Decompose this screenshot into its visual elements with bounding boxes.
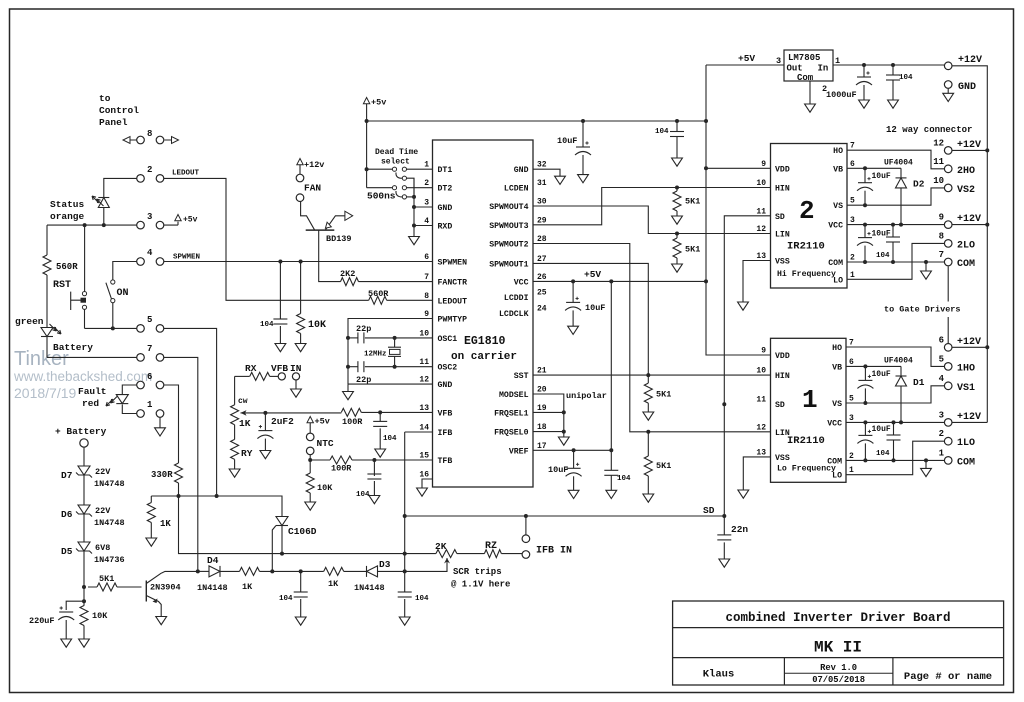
svg-text:3: 3 (776, 56, 781, 66)
svg-text:IFB: IFB (438, 429, 453, 438)
svg-text:SD: SD (775, 213, 785, 222)
svg-text:19: 19 (537, 404, 547, 413)
svg-text:+12V: +12V (957, 337, 981, 348)
+5v arrow (logic rail) (363, 98, 369, 104)
svg-text:FRQSEL1: FRQSEL1 (494, 409, 528, 418)
wire +5v rail to LM7805 out (367, 120, 706, 122)
svg-text:30: 30 (537, 198, 547, 207)
svg-text:104: 104 (383, 435, 397, 443)
svg-text:104: 104 (279, 595, 293, 603)
svg-text:10: 10 (419, 329, 429, 338)
resistor 5K1 pulldown HIN2 (676, 188, 678, 192)
svg-text:16: 16 (419, 471, 429, 480)
svg-text:COM: COM (827, 458, 842, 467)
svg-text:LIN: LIN (775, 231, 790, 240)
svg-text:+12V: +12V (957, 412, 981, 423)
junction 104 vcc1 (892, 420, 896, 424)
junction +5v rail (365, 119, 369, 123)
ground pin16 (417, 488, 428, 496)
svg-text:2018/7/19: 2018/7/19 (14, 385, 76, 401)
wire D5 to base node (83, 551, 85, 601)
junction 330R bottom (177, 494, 181, 498)
svg-text:+12v: +12v (304, 160, 324, 170)
connector circle 10 VS2 (944, 184, 952, 192)
wire PWMTYP to gnd chain (348, 319, 433, 385)
diode D3 1N4148 (367, 566, 378, 577)
connector circle 2 1LO (944, 437, 952, 445)
svg-text:LO: LO (832, 472, 842, 481)
svg-text:+5v: +5v (183, 216, 198, 225)
svg-text:HIN: HIN (775, 185, 790, 194)
ground 5K1 LIN1 (643, 494, 654, 502)
capacitor 10uF (VCC) (572, 281, 574, 302)
junction 10uF rail (581, 119, 585, 123)
svg-text:10uF: 10uF (585, 303, 605, 313)
svg-text:10: 10 (756, 367, 766, 376)
svg-text:ON: ON (117, 288, 129, 299)
connector circle 1 COM (944, 457, 952, 465)
junction 104 VFB (378, 410, 382, 414)
svg-text:PWMTYP: PWMTYP (438, 316, 468, 325)
ground 10uF rail (578, 175, 589, 183)
svg-text:2K: 2K (435, 541, 447, 552)
wire SD row (405, 515, 725, 517)
wire VDD1 (706, 281, 771, 355)
svg-text:COM: COM (957, 259, 975, 270)
wire COM1 row (846, 459, 944, 461)
resistor 10K (base) (83, 601, 85, 639)
svg-text:26: 26 (537, 273, 547, 282)
svg-text:2: 2 (939, 429, 944, 439)
svg-text:6: 6 (939, 335, 944, 345)
wire 330R junction to 2K row (179, 496, 405, 554)
capacitor 104 (VCC2) (892, 225, 894, 262)
svg-text:1: 1 (849, 466, 854, 475)
svg-text:4: 4 (939, 374, 945, 384)
svg-text:MODSEL: MODSEL (499, 391, 529, 400)
jumper DT1 (367, 168, 393, 170)
ground emitter 2N3904 (156, 617, 167, 625)
ground 220uF (61, 639, 72, 647)
wire pin5 right down to SCR net (164, 328, 217, 496)
svg-text:12: 12 (756, 423, 766, 432)
wire SPWMOUT4 to LIN2 (533, 206, 771, 234)
junction 104 rail (675, 119, 679, 123)
connector IFB IN upper circle (522, 535, 530, 543)
resistor 10K (SPWMEN) (300, 262, 302, 344)
junction gnd com1 (924, 458, 928, 462)
resistor RY (234, 425, 236, 440)
zener D6 22V 1N4748 (78, 505, 90, 514)
ground pin32 (555, 176, 566, 184)
wire RST/ON to pin5 (85, 327, 137, 329)
svg-text:RZ: RZ (485, 541, 497, 552)
wire TFB row (310, 459, 330, 461)
connector pin 3 pair (137, 221, 145, 229)
junction base divider (82, 585, 86, 589)
svg-text:VCC: VCC (514, 278, 529, 287)
svg-text:OSC1: OSC1 (438, 335, 458, 344)
svg-text:VS: VS (832, 400, 842, 409)
svg-text:SD: SD (775, 401, 785, 410)
junction osc vertical top (346, 336, 350, 340)
wire SPWMOUT2 to LIN1 (533, 244, 771, 432)
connector circle 8 2LO (944, 240, 952, 248)
svg-text:VS2: VS2 (957, 185, 975, 196)
capacitor 1000uF (863, 65, 865, 77)
svg-text:Fault: Fault (78, 386, 107, 397)
wire to IFB IN circle (525, 516, 527, 535)
zener D5 6V8 1N4736 (78, 542, 90, 551)
wire battery to D7 (83, 447, 85, 466)
svg-text:6: 6 (147, 372, 152, 382)
diode D4 1N4148 (209, 566, 220, 577)
svg-text:Out: Out (787, 64, 803, 74)
svg-text:07/05/2018: 07/05/2018 (812, 675, 865, 685)
svg-text:12: 12 (419, 376, 429, 385)
wire VSS2 to ground (743, 261, 771, 303)
wire SPWMOUT3 to HIN2 (533, 188, 771, 225)
ground 104 rail (672, 158, 683, 166)
svg-text:6: 6 (849, 358, 854, 367)
svg-text:1: 1 (802, 385, 818, 415)
capacitor 22p lower (357, 361, 359, 372)
capacitor 10uF (logic rail) (582, 121, 584, 147)
svg-text:1N4748: 1N4748 (94, 479, 125, 489)
junction 10uF vcc2 (863, 223, 867, 227)
wire SCR gate (272, 526, 276, 572)
svg-text:Com: Com (797, 73, 814, 83)
wire VDD2 (706, 167, 771, 169)
capacitor 104 (gate row right) (404, 571, 406, 617)
svg-text:VREF: VREF (509, 447, 529, 456)
svg-text:2: 2 (147, 165, 152, 175)
ground VSS2 (738, 302, 749, 310)
ground oscillator (343, 392, 354, 400)
svg-text:104: 104 (655, 128, 669, 136)
svg-text:C106D: C106D (288, 526, 317, 537)
svg-text:Panel: Panel (99, 117, 128, 128)
capacitor 22p upper (357, 332, 359, 343)
svg-text:22V: 22V (95, 467, 111, 477)
wire SPWMEN row (164, 261, 433, 263)
junction 104 com1 (892, 458, 896, 462)
wire 1K to D3 (344, 570, 367, 572)
ground GND pin (947, 88, 949, 93)
junction 10uF VS2 (863, 203, 867, 207)
svg-text:combined Inverter Driver Board: combined Inverter Driver Board (725, 611, 950, 625)
svg-text:13: 13 (419, 404, 429, 413)
svg-text:cw: cw (238, 397, 248, 406)
zener D7 22V 1N4748 (78, 466, 90, 475)
junction SCR gate on row (270, 569, 274, 573)
wire FAN to BD139 collector (301, 202, 315, 230)
ground 104 12V (888, 100, 899, 108)
wire OSC1 row (365, 337, 433, 339)
svg-text:104: 104 (899, 74, 913, 82)
svg-text:21: 21 (537, 367, 547, 376)
svg-text:VFB: VFB (271, 363, 288, 374)
svg-text:D7: D7 (61, 470, 73, 481)
svg-text:12 way connector: 12 way connector (886, 125, 972, 135)
svg-text:1: 1 (850, 271, 855, 280)
svg-text:www.thebackshed.com: www.thebackshed.com (13, 369, 152, 384)
svg-text:SCR trips: SCR trips (453, 567, 502, 577)
junction 10uF boot1 (863, 364, 867, 368)
capacitor 220uF (66, 601, 84, 610)
capacitor 104 (TFB) (373, 460, 375, 497)
wire NTC to TFB row (309, 455, 311, 473)
svg-text:500ns: 500ns (367, 191, 396, 202)
svg-text:560R: 560R (56, 262, 78, 272)
resistor 1K before D3 (324, 567, 344, 575)
svg-text:10K: 10K (92, 611, 108, 621)
svg-text:SPWMEN: SPWMEN (173, 254, 200, 262)
+5v arrow NTC (307, 417, 313, 423)
svg-text:3: 3 (939, 410, 944, 420)
wire RX to pot top (234, 376, 236, 404)
ground 104 VREF (606, 490, 617, 498)
svg-text:+5V: +5V (584, 269, 601, 280)
svg-text:2: 2 (849, 452, 854, 461)
junction 5K1 HIN2 (675, 186, 679, 190)
junction 104 TFB (372, 458, 376, 462)
svg-text:COM: COM (828, 259, 843, 268)
resistor 5K1 pulldown HIN1 (647, 375, 649, 383)
ground 5K1 HIN1 (643, 412, 654, 420)
svg-text:1: 1 (147, 400, 153, 410)
svg-text:LEDOUT: LEDOUT (438, 297, 468, 306)
junction VDD2 feed (704, 166, 708, 170)
svg-text:13: 13 (756, 252, 766, 261)
svg-text:RST: RST (53, 280, 71, 291)
svg-text:17: 17 (537, 442, 547, 451)
capacitor 104 (VFB) (379, 412, 381, 449)
jumper shunt arc 2 (500ns) (396, 191, 402, 197)
wire SCR cathode (281, 526, 283, 554)
junction pin5 drop at SCR net (215, 494, 219, 498)
ground 5K1 HIN2 (672, 216, 683, 224)
junction dead-time common (412, 195, 416, 199)
IC U4 IR2110 1 body (771, 338, 847, 482)
svg-text:25: 25 (537, 289, 547, 298)
svg-text:10: 10 (933, 176, 944, 186)
svg-text:SPWMEN: SPWMEN (438, 259, 468, 268)
wire VCC1 row (846, 421, 944, 423)
ground 104 TFB (369, 496, 380, 504)
ground dead-time (409, 237, 420, 245)
svg-text:VSS: VSS (775, 454, 790, 463)
svg-text:Klaus: Klaus (703, 669, 735, 681)
capacitor 10uF bootstrap 2 (864, 168, 866, 182)
connector pin 2 pair (137, 175, 145, 183)
svg-text:9: 9 (939, 213, 944, 223)
svg-text:GND: GND (438, 204, 453, 213)
wire SPWMOUT1 to HIN1/SST (533, 263, 648, 375)
svg-text:+5v: +5v (371, 98, 386, 108)
capacitor 104 (VCC1) (893, 422, 895, 460)
svg-text:27: 27 (537, 255, 547, 264)
junction SD1 tap (722, 402, 726, 406)
svg-text:VCC: VCC (828, 222, 843, 231)
junction D1 VCC1 (899, 420, 903, 424)
svg-text:8: 8 (939, 231, 944, 241)
wire connector continuation (947, 266, 949, 343)
svg-text:1K: 1K (328, 579, 339, 589)
svg-text:24: 24 (537, 305, 547, 314)
junction 104 vcc2 (891, 223, 895, 227)
svg-text:Status: Status (50, 199, 85, 210)
connector +12V input (944, 62, 952, 70)
junction 104 com2 (891, 260, 895, 264)
junction bus pin6 (985, 345, 989, 349)
resistor RZ (457, 553, 485, 555)
junction crystal OSC2 (393, 365, 397, 369)
connector FAN pin 2 (296, 194, 304, 202)
svg-text:HO: HO (832, 344, 842, 353)
junction 2uF2 (263, 411, 267, 415)
junction 10uF vcc1 (863, 420, 867, 424)
svg-text:7: 7 (939, 250, 944, 260)
svg-text:SPWMOUT4: SPWMOUT4 (489, 203, 528, 212)
junction 1000uF (862, 63, 866, 67)
svg-text:7: 7 (849, 339, 854, 348)
svg-text:2N3904: 2N3904 (150, 583, 181, 593)
svg-text:1: 1 (424, 161, 429, 170)
svg-text:SPWMOUT2: SPWMOUT2 (489, 241, 528, 250)
svg-text:10uF: 10uF (548, 465, 568, 475)
IC U3 IR2110 2 body (771, 144, 848, 289)
svg-text:LM7805: LM7805 (788, 53, 820, 63)
connector circle 12 +12V (944, 147, 952, 155)
svg-text:GND: GND (958, 82, 976, 93)
ground 104 gate row right (399, 617, 410, 625)
svg-text:10uF: 10uF (872, 172, 891, 181)
junction IFB at SD row (403, 514, 407, 518)
wire D6-D5 (83, 514, 85, 542)
svg-text:DT1: DT1 (438, 166, 453, 175)
pot 2K (405, 553, 436, 555)
svg-text:5K1: 5K1 (685, 197, 700, 207)
svg-text:+12V: +12V (958, 55, 982, 66)
wire LEDOUT row (226, 296, 369, 301)
svg-text:9: 9 (761, 347, 766, 356)
svg-text:10uF: 10uF (557, 136, 577, 146)
svg-text:VCC: VCC (827, 419, 842, 428)
junction 10uF com1 (863, 458, 867, 462)
connector NTC pin 1 (306, 433, 314, 441)
svg-text:1K: 1K (160, 519, 171, 529)
svg-text:VSS: VSS (775, 258, 790, 267)
svg-text:100R: 100R (331, 464, 352, 474)
capacitor 104 (VREF) (610, 450, 612, 490)
wire pin4 left to ON switch (113, 262, 137, 280)
svg-text:104: 104 (260, 321, 274, 329)
wire pin2 to LED and LEDOUT vertical (104, 178, 137, 197)
svg-text:8: 8 (147, 129, 152, 139)
wire VREF row (533, 449, 611, 451)
svg-text:In: In (818, 64, 829, 74)
wire VS1 row (846, 386, 944, 403)
connector circle 11 2HO (944, 165, 952, 173)
capacitor 104 (12V in) (892, 65, 894, 100)
svg-text:on carrier: on carrier (451, 351, 517, 363)
svg-text:LCDEN: LCDEN (504, 185, 529, 194)
wire pin16 stub (422, 479, 433, 488)
svg-text:3: 3 (850, 216, 855, 225)
svg-text:22p: 22p (356, 324, 371, 334)
resistor 1K after D4 (240, 567, 260, 575)
svg-text:VDD: VDD (775, 352, 790, 361)
svg-text:5: 5 (850, 197, 855, 206)
wire BD139 base to 2K2 (319, 230, 341, 281)
ground 10uF VCC (568, 326, 579, 334)
svg-text:DT2: DT2 (438, 185, 453, 194)
svg-text:20: 20 (537, 386, 547, 395)
connector pin 8 pair with arrows (130, 139, 171, 141)
wire HO1 to 1HO (846, 347, 944, 366)
wire IFB vertical (404, 432, 406, 571)
capacitor 10uF (VCC1) (864, 422, 866, 435)
IC U1 EG1810 on carrier body (433, 140, 534, 487)
svg-text:RX: RX (245, 363, 257, 374)
junction 104 input (891, 63, 895, 67)
svg-text:HIN: HIN (775, 372, 790, 381)
svg-text:1LO: 1LO (957, 438, 975, 449)
wire VCC2 row (847, 224, 944, 226)
junction 104 filter (278, 260, 282, 264)
svg-text:104: 104 (617, 475, 631, 483)
svg-text:5: 5 (849, 395, 854, 404)
junction 5K1 LIN1 (646, 430, 650, 434)
wire 2K2 to FANCTR (359, 281, 433, 283)
jumper DT2 (367, 187, 393, 189)
svg-text:10K: 10K (317, 483, 333, 493)
resistor 330R (175, 463, 183, 483)
svg-text:15: 15 (419, 452, 429, 461)
ground 10uF VREF (568, 490, 579, 498)
svg-text:D6: D6 (61, 509, 73, 520)
svg-text:6: 6 (424, 253, 429, 262)
resistor 1K (gate net) (150, 496, 152, 538)
resistor 5K1 (base) (97, 583, 117, 591)
svg-text:104: 104 (415, 595, 429, 603)
svg-text:@ 1.1V here: @ 1.1V here (451, 580, 510, 590)
ground RY (229, 469, 240, 477)
svg-text:RXD: RXD (438, 223, 453, 232)
ground pin1 (155, 428, 166, 436)
ground 104 VFB (375, 449, 386, 457)
svg-text:LO: LO (833, 276, 843, 285)
svg-text:D1: D1 (913, 377, 925, 388)
svg-text:Control: Control (99, 105, 139, 116)
junction VREF-104 (609, 448, 613, 452)
svg-text:LEDOUT: LEDOUT (172, 170, 200, 178)
wire pin6 left to red LED (122, 385, 136, 395)
svg-text:14: 14 (419, 424, 429, 433)
wire VSS1 to ground (743, 457, 770, 490)
svg-text:Rev 1.0: Rev 1.0 (820, 663, 857, 673)
junction IFB at 2K row (403, 552, 407, 556)
svg-text:7: 7 (147, 344, 152, 354)
ground 10K SPWMEN (295, 344, 306, 352)
junction SCR cathode on 2K row (280, 552, 284, 556)
svg-text:2: 2 (424, 179, 429, 188)
svg-text:BD139: BD139 (326, 234, 352, 244)
ground COM1 (925, 460, 927, 468)
svg-text:104: 104 (876, 252, 890, 260)
svg-text:12: 12 (756, 225, 766, 234)
